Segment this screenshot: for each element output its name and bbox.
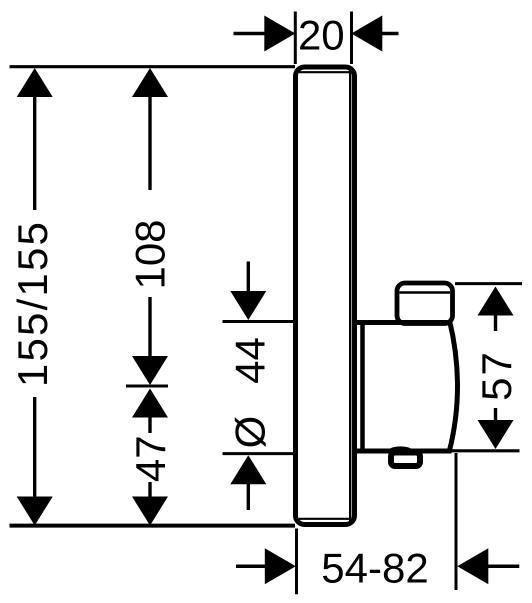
- svg-text:108: 108: [127, 219, 174, 289]
- svg-text:Ø: Ø: [227, 416, 274, 449]
- svg-text:44: 44: [227, 337, 274, 384]
- svg-text:155/155: 155/155: [9, 220, 56, 387]
- svg-text:57: 57: [473, 350, 520, 401]
- svg-text:47: 47: [127, 435, 174, 482]
- svg-text:54-82: 54-82: [321, 545, 428, 592]
- svg-text:20: 20: [298, 12, 345, 59]
